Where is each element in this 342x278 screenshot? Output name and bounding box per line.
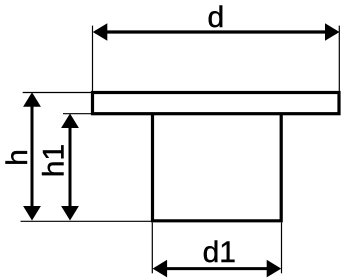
svg-text:d: d (207, 1, 224, 34)
svg-text:h1: h1 (38, 144, 71, 177)
svg-text:d1: d1 (203, 236, 236, 269)
svg-text:h: h (1, 149, 34, 166)
